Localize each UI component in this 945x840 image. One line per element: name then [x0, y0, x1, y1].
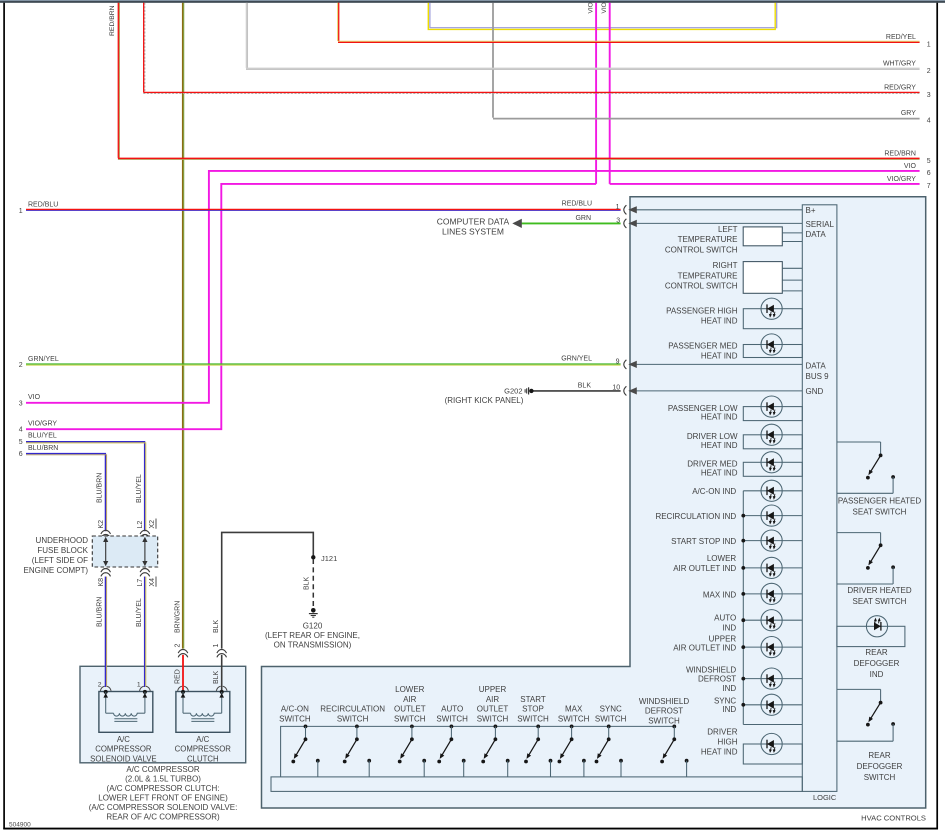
svg-text:RED/YEL: RED/YEL	[886, 34, 916, 41]
svg-text:OUTLET: OUTLET	[477, 705, 509, 714]
svg-text:COMPRESSOR: COMPRESSOR	[175, 745, 232, 754]
svg-text:RED/BLU: RED/BLU	[28, 201, 58, 208]
svg-text:ON TRANSMISSION): ON TRANSMISSION)	[274, 640, 352, 649]
wire BLK from GND pin to splice G202	[531, 390, 620, 392]
indicator RECIRCULATION IND	[743, 515, 802, 517]
svg-text:LOGIC: LOGIC	[813, 793, 837, 802]
svg-text:GRN/YEL: GRN/YEL	[28, 356, 59, 363]
svg-text:SWITCH: SWITCH	[279, 715, 311, 724]
svg-text:RECIRCULATION IND: RECIRCULATION IND	[655, 512, 736, 521]
indicator A/C-ON IND	[743, 490, 802, 492]
wire BRN/GRN vertical (to A/C compressor clutch RED)	[182, 3, 184, 649]
svg-text:BUS 9: BUS 9	[806, 372, 830, 381]
svg-text:BLK: BLK	[578, 382, 592, 389]
svg-text:AIR: AIR	[403, 695, 417, 704]
indicator PASSENGER MED HEAT IND	[743, 345, 802, 358]
switch PASSENGER HEATED SEAT SWITCH	[837, 441, 881, 443]
connector arcs on RED wire	[178, 649, 188, 653]
svg-text:SWITCH: SWITCH	[477, 715, 509, 724]
svg-text:LOWER LEFT FRONT OF ENGINE): LOWER LEFT FRONT OF ENGINE)	[98, 793, 228, 802]
svg-text:K8: K8	[98, 578, 105, 587]
svg-text:4: 4	[927, 118, 931, 125]
connector arcs on BLK wire	[217, 649, 227, 653]
svg-text:UPPER: UPPER	[479, 685, 507, 694]
svg-text:LINES SYSTEM: LINES SYSTEM	[442, 227, 504, 237]
wire RED/BRN vertical from top (to right pin 5)	[117, 3, 119, 158]
svg-text:PASSENGER LOW: PASSENGER LOW	[668, 404, 738, 413]
logic block bottom bar	[271, 777, 802, 792]
indicator WINDSHIELD DEFROST IND	[743, 678, 802, 680]
svg-text:HEAT IND: HEAT IND	[701, 351, 738, 360]
svg-text:SWITCH: SWITCH	[517, 715, 549, 724]
wire GRY vertical from top (to right pin 4)	[492, 3, 494, 118]
wire RED/BRN to pin 5	[118, 157, 920, 159]
svg-text:GND: GND	[806, 387, 824, 396]
svg-text:X2: X2	[149, 520, 156, 529]
svg-text:RED/BRN: RED/BRN	[884, 151, 916, 158]
svg-text:(LEFT REAR OF ENGINE,: (LEFT REAR OF ENGINE,	[265, 631, 360, 640]
module edge connector pin (SERIAL DATA)	[624, 219, 627, 228]
svg-text:START: START	[520, 695, 546, 704]
svg-text:RIGHT: RIGHT	[713, 261, 738, 270]
svg-text:UPPER: UPPER	[709, 634, 737, 643]
svg-text:SERIAL: SERIAL	[806, 220, 835, 229]
svg-text:(LEFT SIDE OF: (LEFT SIDE OF	[32, 556, 88, 565]
wire BLU/BRN from fuse K8 to solenoid valve	[104, 577, 106, 687]
svg-text:HEAT IND: HEAT IND	[701, 748, 738, 757]
svg-text:A/C: A/C	[196, 735, 209, 744]
svg-text:BLK: BLK	[213, 619, 220, 633]
svg-text:SWITCH: SWITCH	[648, 717, 680, 726]
svg-text:TEMPERATURE: TEMPERATURE	[678, 271, 738, 280]
svg-text:3: 3	[616, 217, 620, 224]
svg-text:(2.0L & 1.5L TURBO): (2.0L & 1.5L TURBO)	[125, 774, 201, 783]
logic block tall rectangle	[802, 205, 837, 792]
right temperature control switch	[743, 262, 782, 294]
solenoid coil	[106, 712, 114, 714]
svg-text:LOWER: LOWER	[707, 554, 737, 563]
connector pin arc	[100, 686, 104, 691]
svg-text:IND: IND	[722, 684, 736, 693]
wire RED/YEL vertical from top (to right pin 1)	[338, 3, 340, 41]
switch AUTO SWITCH	[450, 725, 454, 729]
switch SYNC SWITCH	[607, 725, 611, 729]
svg-text:3: 3	[927, 92, 931, 99]
indicator DRIVER HIGH HEAT IND	[743, 744, 802, 764]
switch A/C-ON SWITCH	[304, 725, 308, 729]
svg-text:SWITCH: SWITCH	[558, 715, 590, 724]
svg-text:IND: IND	[722, 705, 736, 714]
switch START STOP SWITCH	[536, 725, 540, 729]
svg-text:MAX: MAX	[565, 705, 583, 714]
svg-text:MAX IND: MAX IND	[703, 590, 737, 599]
svg-text:REAR: REAR	[868, 751, 890, 760]
svg-text:IND: IND	[870, 670, 884, 679]
svg-text:4: 4	[19, 427, 23, 434]
underhood fuse block (dashed)	[92, 536, 157, 567]
svg-text:TEMPERATURE: TEMPERATURE	[678, 235, 738, 244]
svg-text:GRN: GRN	[575, 215, 591, 222]
svg-text:VIO/GRY: VIO/GRY	[28, 421, 57, 428]
svg-text:LEFT: LEFT	[718, 225, 738, 234]
svg-text:SWITCH: SWITCH	[436, 715, 468, 724]
svg-text:STOP: STOP	[522, 705, 544, 714]
indicator REAR DEFOGGER IND	[837, 626, 905, 646]
svg-text:VIO: VIO	[904, 163, 917, 170]
HVAC control module box (L-shaped)	[262, 197, 926, 808]
svg-text:AIR OUTLET IND: AIR OUTLET IND	[673, 564, 736, 573]
svg-text:6: 6	[19, 451, 23, 458]
svg-text:DRIVER MED: DRIVER MED	[687, 460, 737, 469]
indicator common feed line	[742, 491, 744, 725]
connector pin arc	[140, 686, 144, 691]
svg-text:SYNC: SYNC	[600, 705, 622, 714]
indicator START STOP IND	[743, 540, 802, 542]
wire VIO vertical left (joins VIO/GRY left segment)	[595, 3, 597, 184]
solenoid coil	[183, 712, 191, 714]
svg-text:AIR OUTLET IND: AIR OUTLET IND	[673, 644, 736, 653]
svg-text:DRIVER: DRIVER	[707, 728, 737, 737]
wire RED/BLU left pin 1 to module B+	[26, 208, 621, 210]
switch REAR DEFOGGER SWITCH	[837, 688, 881, 690]
svg-text:AUTO: AUTO	[714, 614, 736, 623]
svg-text:SEAT SWITCH: SEAT SWITCH	[853, 597, 907, 606]
indicator MAX IND	[743, 593, 802, 595]
switch DRIVER HEATED SEAT SWITCH	[837, 532, 881, 534]
svg-text:1: 1	[19, 208, 23, 215]
wire GRY to pin 4	[493, 118, 920, 120]
switch LOWER AIR OUTLET SWITCH	[410, 725, 414, 729]
svg-text:L2: L2	[137, 521, 144, 529]
svg-text:BLU/BRN: BLU/BRN	[97, 597, 104, 627]
wire VIO vertical right (feeds right pin 7)	[609, 3, 611, 184]
wire RED/GRY to pin 3	[143, 91, 919, 93]
svg-text:BLK: BLK	[304, 576, 311, 590]
ground G202	[529, 389, 533, 393]
svg-text:A/C: A/C	[117, 735, 130, 744]
svg-text:CLUTCH: CLUTCH	[187, 754, 219, 763]
svg-text:5: 5	[927, 158, 931, 165]
page bottom border	[3, 828, 938, 830]
svg-text:(A/C COMPRESSOR CLUTCH:: (A/C COMPRESSOR CLUTCH:	[107, 784, 220, 793]
wire BLK from module GND down to compressor clutch	[222, 532, 314, 648]
svg-text:SWITCH: SWITCH	[864, 773, 896, 782]
svg-text:REAR: REAR	[865, 648, 887, 657]
svg-text:CONTROL SWITCH: CONTROL SWITCH	[665, 245, 738, 254]
svg-text:CONTROL SWITCH: CONTROL SWITCH	[665, 282, 738, 291]
indicator DRIVER LOW HEAT IND	[743, 435, 802, 449]
svg-text:6: 6	[927, 170, 931, 177]
svg-text:X4: X4	[149, 578, 156, 587]
svg-text:J121: J121	[321, 554, 337, 563]
svg-text:L7: L7	[137, 579, 144, 587]
wire pair YEL + BLU cup-shaped jumper at top	[430, 3, 777, 28]
wire BLU/BRN left pin 6 down to fuse block K2	[26, 454, 105, 532]
left temperature control switch	[743, 227, 782, 246]
svg-text:SOLENOID VALVE: SOLENOID VALVE	[90, 754, 156, 763]
switch UPPER AIR OUTLET SWITCH	[494, 725, 498, 729]
svg-text:UNDERHOOD: UNDERHOOD	[36, 536, 89, 545]
svg-text:3: 3	[19, 401, 23, 408]
wire GRN/YEL left pin 2 to module DATA BUS 9	[26, 363, 621, 365]
svg-text:RECIRCULATION: RECIRCULATION	[320, 705, 385, 714]
inner component box	[176, 692, 230, 733]
svg-text:DEFOGGER: DEFOGGER	[857, 762, 903, 771]
wire BLK into clutch	[221, 655, 223, 692]
svg-text:10: 10	[612, 385, 620, 392]
svg-text:IND: IND	[722, 624, 736, 633]
svg-text:SWITCH: SWITCH	[337, 715, 369, 724]
svg-text:5: 5	[19, 439, 23, 446]
svg-text:WINDSHIELD: WINDSHIELD	[686, 666, 736, 675]
svg-text:WINDSHIELD: WINDSHIELD	[639, 697, 689, 706]
wire RED into clutch	[182, 655, 184, 692]
wire BLU/YEL from fuse L7 to solenoid valve	[144, 577, 146, 687]
svg-text:2: 2	[98, 682, 102, 689]
svg-text:BLU/BRN: BLU/BRN	[97, 473, 104, 503]
splice J121	[311, 555, 315, 559]
svg-text:GRY: GRY	[901, 110, 916, 117]
indicator DRIVER MED HEAT IND	[743, 462, 802, 476]
svg-text:G202: G202	[504, 387, 522, 396]
svg-text:504900: 504900	[9, 822, 31, 829]
svg-text:AIR: AIR	[486, 695, 500, 704]
svg-text:BRN/GRN: BRN/GRN	[174, 601, 181, 633]
connector pin arc	[216, 686, 220, 691]
wire WHT/GRY to pin 2	[246, 67, 920, 69]
svg-text:9: 9	[616, 359, 620, 366]
svg-text:HEAT IND: HEAT IND	[701, 441, 738, 450]
svg-text:A/C-ON: A/C-ON	[281, 705, 309, 714]
indicator PASSENGER LOW HEAT IND	[743, 407, 802, 421]
wire VIO to pin 6 (from left wire 3 riser)	[26, 171, 920, 403]
svg-text:RED: RED	[174, 669, 181, 684]
inner component box	[99, 692, 153, 733]
svg-text:1: 1	[927, 42, 931, 49]
svg-text:(A/C COMPRESSOR SOLENOID VALVE: (A/C COMPRESSOR SOLENOID VALVE:	[89, 803, 238, 812]
svg-text:7: 7	[927, 183, 931, 190]
wire WHT/GRY vertical from top (to right pin 2)	[245, 3, 247, 68]
wire VIO/GRY left segment (left wire 4 riser up to top via VIO vertical)	[26, 184, 596, 429]
svg-text:PASSENGER HIGH: PASSENGER HIGH	[666, 307, 738, 316]
svg-text:(RIGHT KICK PANEL): (RIGHT KICK PANEL)	[445, 396, 524, 405]
svg-text:BLU/BRN: BLU/BRN	[28, 445, 58, 452]
svg-text:K2: K2	[98, 520, 105, 529]
svg-text:1: 1	[616, 204, 620, 211]
wire RED/YEL to pin 1	[338, 41, 920, 43]
svg-text:RED/BLU: RED/BLU	[562, 201, 592, 208]
svg-text:HIGH: HIGH	[718, 738, 738, 747]
svg-text:HVAC CONTROLS: HVAC CONTROLS	[861, 813, 926, 822]
svg-text:FUSE BLOCK: FUSE BLOCK	[37, 546, 88, 555]
svg-text:2: 2	[19, 362, 23, 369]
svg-text:HEAT IND: HEAT IND	[701, 413, 738, 422]
svg-text:SEAT SWITCH: SEAT SWITCH	[853, 507, 907, 516]
svg-text:SWITCH: SWITCH	[595, 715, 627, 724]
svg-text:SWITCH: SWITCH	[394, 715, 426, 724]
wire BLK dashed to ground	[312, 559, 314, 607]
svg-text:VIO: VIO	[28, 394, 41, 401]
svg-text:DATA: DATA	[806, 230, 827, 239]
svg-text:DEFROST: DEFROST	[645, 707, 683, 716]
svg-text:DRIVER HEATED: DRIVER HEATED	[847, 586, 912, 595]
svg-text:BLU/YEL: BLU/YEL	[136, 474, 143, 503]
svg-text:DRIVER LOW: DRIVER LOW	[687, 432, 738, 441]
svg-text:A/C COMPRESSOR: A/C COMPRESSOR	[126, 765, 200, 774]
switch row common line	[281, 726, 675, 777]
A/C compressor outer box	[80, 666, 246, 763]
svg-text:2: 2	[927, 68, 931, 75]
svg-text:BLU/YEL: BLU/YEL	[136, 598, 143, 627]
indicator SYNC IND	[743, 704, 802, 706]
wire BLU/YEL left pin 5 down to fuse block L2	[26, 442, 145, 532]
svg-text:START STOP IND: START STOP IND	[671, 537, 736, 546]
wire VIO/GRY right segment to pin 7	[610, 183, 920, 185]
svg-text:RED/GRY: RED/GRY	[884, 85, 916, 92]
switch RECIRCULATION SWITCH	[355, 725, 359, 729]
svg-text:ENGINE COMPT): ENGINE COMPT)	[24, 566, 89, 575]
svg-text:HEAT IND: HEAT IND	[701, 468, 738, 477]
page right border	[936, 3, 938, 830]
switch WINDSHIELD DEFROST SWITCH	[672, 725, 676, 729]
connector arcs at fuse block bottom	[101, 569, 111, 573]
indicator LOWER AIR OUTLET IND	[743, 567, 802, 569]
wire RED/GRY vertical from top (to right pin 3)	[143, 3, 145, 92]
fuse element arrows inside block	[105, 540, 107, 564]
svg-text:VIO: VIO	[601, 2, 608, 13]
svg-text:DEFROST: DEFROST	[698, 675, 736, 684]
svg-text:1: 1	[137, 682, 141, 689]
svg-text:VIO: VIO	[588, 2, 595, 13]
module edge connector pin (DATA BUS 9)	[624, 360, 627, 369]
module edge connector pin (B+)	[624, 205, 627, 214]
svg-text:COMPRESSOR: COMPRESSOR	[95, 745, 152, 754]
page top bar	[0, 0, 945, 1]
svg-text:DATA: DATA	[806, 362, 827, 371]
svg-text:VIO/GRY: VIO/GRY	[887, 176, 916, 183]
svg-text:DEFOGGER: DEFOGGER	[854, 659, 900, 668]
page left border	[3, 3, 5, 830]
svg-text:GRN/YEL: GRN/YEL	[561, 355, 592, 362]
svg-text:G120: G120	[303, 621, 323, 630]
svg-text:AUTO: AUTO	[441, 705, 463, 714]
switch MAX SWITCH	[570, 725, 574, 729]
svg-text:OUTLET: OUTLET	[394, 705, 426, 714]
svg-text:1: 1	[213, 644, 220, 648]
indicator AUTO IND	[743, 619, 802, 621]
svg-text:LOWER: LOWER	[395, 685, 425, 694]
wire GRN from module SERIAL DATA to computer data lines system, arrow left	[514, 222, 621, 224]
svg-text:RED/BRN: RED/BRN	[109, 5, 116, 36]
svg-text:BLK: BLK	[213, 670, 220, 684]
svg-text:BLU/YEL: BLU/YEL	[28, 433, 57, 440]
svg-text:B+: B+	[806, 206, 816, 215]
indicator UPPER AIR OUTLET IND	[743, 646, 802, 648]
ground G120	[311, 608, 316, 613]
svg-text:PASSENGER HEATED: PASSENGER HEATED	[838, 497, 922, 506]
svg-text:REAR OF A/C COMPRESSOR): REAR OF A/C COMPRESSOR)	[106, 812, 220, 821]
svg-text:2: 2	[174, 644, 181, 648]
svg-text:HEAT IND: HEAT IND	[701, 316, 738, 325]
svg-text:PASSENGER MED: PASSENGER MED	[668, 342, 737, 351]
connector arcs at fuse block top	[101, 530, 111, 534]
svg-text:WHT/GRY: WHT/GRY	[883, 61, 916, 68]
indicator PASSENGER HIGH HEAT IND	[743, 309, 802, 329]
svg-text:COMPUTER DATA: COMPUTER DATA	[437, 217, 510, 227]
connector pin arc	[178, 686, 182, 691]
svg-text:A/C-ON IND: A/C-ON IND	[692, 487, 736, 496]
module edge connector pin (GND)	[624, 386, 627, 395]
